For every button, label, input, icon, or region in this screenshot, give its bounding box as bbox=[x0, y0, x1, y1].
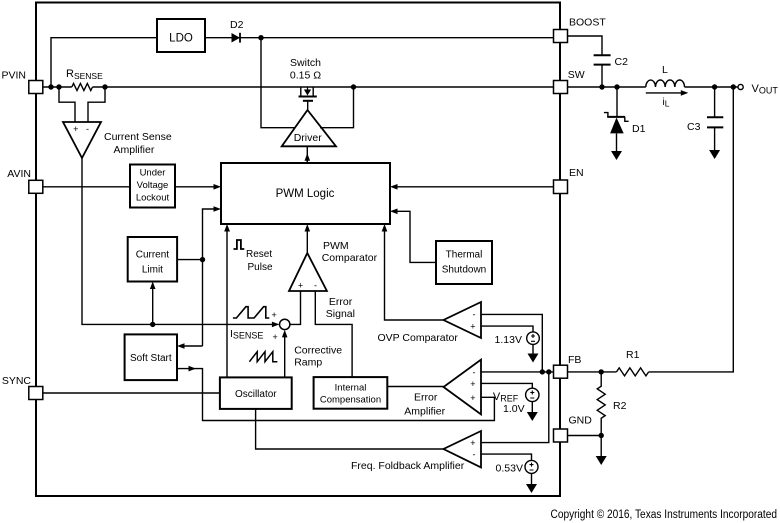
svg-text:C2: C2 bbox=[615, 56, 629, 68]
svg-text:VOUT: VOUT bbox=[752, 83, 779, 96]
svg-text:PWM: PWM bbox=[323, 240, 349, 252]
svg-text:Driver: Driver bbox=[294, 132, 323, 144]
svg-text:Shutdown: Shutdown bbox=[442, 265, 486, 276]
resistor R1 bbox=[617, 349, 649, 376]
node: ISENSE / current limit junction bbox=[150, 322, 155, 327]
node: summing junction circle bbox=[280, 319, 290, 329]
wire: C2 to SW rail bbox=[601, 65, 603, 87]
node: FB net OVP junction bbox=[540, 369, 545, 374]
diode D2 bbox=[230, 19, 244, 43]
wire: summing node to comparator plus input bbox=[290, 291, 301, 324]
svg-text:C3: C3 bbox=[687, 121, 701, 133]
svg-text:1.13V: 1.13V bbox=[495, 334, 522, 346]
svg-text:-: - bbox=[314, 281, 317, 291]
block under voltage lockout bbox=[130, 165, 175, 208]
svg-text:L: L bbox=[662, 64, 668, 76]
wire: R1 to VOUT bbox=[649, 87, 734, 372]
arrowhead into summing node bbox=[272, 322, 280, 328]
wire: foldback minus to 0.53V source bbox=[481, 454, 532, 460]
svg-text:+: + bbox=[470, 438, 475, 448]
capacitor C2 bbox=[594, 55, 628, 68]
pin BOOST bbox=[554, 17, 607, 43]
IC boundary box bbox=[36, 3, 560, 497]
svg-text:Compensation: Compensation bbox=[320, 395, 381, 406]
op-amp current sense amplifier bbox=[63, 122, 172, 158]
svg-text:Switch: Switch bbox=[290, 57, 321, 69]
wire: ISENSE line up into current limit bbox=[152, 289, 154, 324]
svg-text:Reset: Reset bbox=[246, 249, 272, 260]
wire: comparator minus to internal compensation (error signal) bbox=[315, 291, 352, 377]
svg-text:Internal: Internal bbox=[335, 383, 367, 394]
wire: OVP plus input to 1.13V source bbox=[481, 326, 533, 332]
wire: foldback plus to FB net bbox=[481, 372, 549, 443]
svg-text:+: + bbox=[272, 310, 277, 320]
wire: comparator output up into PWM logic bbox=[306, 232, 308, 254]
svg-text:-: - bbox=[473, 367, 476, 377]
svg-text:Copyright © 2016, Texas Instru: Copyright © 2016, Texas Instruments Inco… bbox=[551, 509, 778, 521]
svg-text:Ramp: Ramp bbox=[294, 357, 322, 369]
op-amp error amplifier bbox=[404, 360, 481, 418]
wire: SW rail down to driver right supply bbox=[320, 87, 354, 128]
source 1.13V bbox=[495, 332, 540, 346]
svg-text:Amplifier: Amplifier bbox=[404, 406, 445, 418]
wire: error amp minus to FB pin bbox=[481, 371, 554, 373]
current arrow iL bbox=[646, 92, 681, 94]
wire: SYNC to oscillator bbox=[43, 392, 220, 394]
svg-text:FB: FB bbox=[568, 354, 581, 366]
wire: PVIN rail to LDO (up and across) bbox=[51, 38, 157, 87]
svg-text:-: - bbox=[473, 310, 476, 320]
svg-text:+: + bbox=[73, 124, 78, 134]
wire: bus left into soft start bbox=[184, 345, 202, 347]
svg-text:Pulse: Pulse bbox=[248, 262, 273, 273]
driver amplifier bbox=[282, 110, 336, 146]
svg-text:Amplifier: Amplifier bbox=[114, 144, 155, 156]
wire: BOOST to C2 bbox=[568, 36, 603, 55]
block current limit bbox=[128, 237, 177, 282]
svg-text:BOOST: BOOST bbox=[569, 17, 606, 29]
svg-text:1.0V: 1.0V bbox=[503, 403, 525, 415]
wire: oscillator reset pulse up into PWM logic bbox=[226, 232, 228, 378]
ISENSE waveform glyph bbox=[233, 307, 269, 318]
svg-text:VREF: VREF bbox=[493, 391, 519, 404]
node: C3 junction bbox=[712, 84, 717, 89]
inductor L bbox=[646, 64, 685, 87]
svg-text:Error: Error bbox=[329, 296, 353, 308]
wire: thermal shutdown to PWM logic bbox=[397, 211, 436, 262]
wire: PWM logic to driver bbox=[306, 156, 308, 163]
svg-text:Current Sense: Current Sense bbox=[104, 131, 172, 143]
svg-text:-: - bbox=[86, 124, 89, 134]
pin SW bbox=[554, 69, 585, 94]
wire: sense stub left to amplifier bbox=[59, 87, 75, 122]
svg-text:iL: iL bbox=[663, 97, 670, 109]
block thermal shutdown bbox=[436, 241, 492, 284]
svg-text:+: + bbox=[273, 332, 278, 342]
node: D1 junction on SW rail bbox=[614, 84, 619, 89]
wire: AVIN to under voltage lockout bbox=[43, 186, 130, 188]
svg-text:D1: D1 bbox=[632, 123, 646, 135]
pin SYNC bbox=[2, 375, 43, 400]
svg-text:R2: R2 bbox=[613, 400, 627, 412]
node: rail junction at x51 bbox=[48, 84, 53, 89]
svg-text:PVIN: PVIN bbox=[1, 70, 26, 82]
capacitor C3 bbox=[687, 87, 723, 151]
svg-text:+: + bbox=[298, 281, 303, 291]
block oscillator bbox=[220, 377, 292, 409]
MOSFET switch 0.15 ohm bbox=[290, 57, 321, 110]
svg-text:Thermal: Thermal bbox=[446, 250, 483, 261]
svg-text:-: - bbox=[473, 450, 476, 460]
wire: GND to R2 bottom bbox=[568, 435, 602, 437]
svg-text:LDO: LDO bbox=[169, 33, 193, 45]
svg-text:0.15 Ω: 0.15 Ω bbox=[290, 70, 321, 82]
wire: foldback output to oscillator bbox=[256, 409, 444, 449]
svg-text:GND: GND bbox=[569, 415, 593, 427]
wire: SW to inductor and output bbox=[568, 86, 738, 88]
reset pulse glyph bbox=[234, 240, 245, 249]
svg-text:Soft Start: Soft Start bbox=[130, 353, 172, 364]
op-amp PWM comparator bbox=[289, 240, 378, 291]
svg-text:Voltage: Voltage bbox=[137, 180, 169, 191]
node: feedback tap junction bbox=[731, 84, 736, 89]
source 0.53V bbox=[496, 460, 538, 474]
svg-text:Under: Under bbox=[140, 168, 166, 179]
svg-text:OVP Comparator: OVP Comparator bbox=[378, 332, 459, 344]
svg-text:SW: SW bbox=[568, 69, 585, 81]
ground below 0.53V bbox=[531, 473, 533, 484]
svg-text:Lockout: Lockout bbox=[136, 193, 170, 204]
svg-text:SYNC: SYNC bbox=[2, 375, 32, 387]
svg-text:ISENSE: ISENSE bbox=[230, 328, 263, 341]
diode D1 (schottky) bbox=[604, 87, 646, 152]
pin AVIN bbox=[7, 168, 43, 193]
resistor RSENSE bbox=[66, 68, 103, 91]
svg-text:+: + bbox=[470, 393, 475, 403]
svg-text:PWM Logic: PWM Logic bbox=[276, 188, 335, 200]
pin PVIN bbox=[1, 70, 42, 94]
pin FB bbox=[554, 354, 582, 378]
source VREF 1.0V bbox=[493, 388, 539, 415]
wire: OVP output to PWM logic bbox=[385, 232, 444, 321]
svg-text:Signal: Signal bbox=[326, 308, 355, 320]
block internal compensation bbox=[314, 377, 388, 409]
node: C2 junction on SW rail bbox=[599, 84, 604, 89]
ground below VREF bbox=[531, 402, 533, 413]
corrective ramp waveform glyph bbox=[249, 352, 277, 362]
wire: LDO output to BOOST pin bbox=[205, 37, 553, 39]
wire: junction down to driver left supply bbox=[261, 38, 295, 128]
node: LDO/D2 junction bbox=[258, 35, 263, 40]
resistor R2 bbox=[597, 372, 626, 436]
svg-text:Limit: Limit bbox=[142, 265, 163, 276]
wire: PVIN rail (SW rail) bbox=[43, 86, 553, 88]
svg-text:Error: Error bbox=[414, 391, 438, 403]
node: rail junction at x59 bbox=[56, 84, 61, 89]
wire: soft start output to error amplifier bbox=[177, 369, 494, 421]
LDO U-LDO bbox=[157, 19, 205, 52]
wire: current limit output to vertical bus bbox=[177, 259, 202, 261]
wire: UVLO to PWM logic bbox=[175, 186, 214, 188]
svg-text:Current: Current bbox=[136, 250, 170, 261]
node: FB divider junction bbox=[599, 369, 604, 374]
ground below C3 bbox=[709, 150, 720, 159]
svg-text:D2: D2 bbox=[230, 19, 244, 31]
wire: amplifier output down to ISENSE line bbox=[82, 158, 276, 324]
ground below R2 bbox=[596, 456, 607, 465]
terminal VOUT bbox=[738, 83, 778, 96]
node: FB net foldback junction bbox=[546, 369, 551, 374]
wire: GND junction down bbox=[600, 436, 602, 457]
node: rail junction at x105 bbox=[102, 84, 107, 89]
ground below 1.13V bbox=[532, 345, 534, 355]
wire: OVP minus input to FB net bbox=[481, 314, 542, 372]
node: current limit junction bbox=[200, 257, 205, 262]
pin GND bbox=[554, 415, 593, 443]
wire: sense stub right to amplifier bbox=[88, 87, 105, 122]
block PWM logic bbox=[221, 163, 390, 224]
wire: EN to PWM logic bbox=[397, 186, 553, 188]
wire: FB to divider junction bbox=[568, 371, 617, 373]
svg-text:Comparator: Comparator bbox=[322, 252, 378, 264]
op-amp OVP comparator bbox=[378, 302, 482, 344]
svg-text:+: + bbox=[470, 379, 475, 389]
node: GND junction bbox=[599, 433, 604, 438]
svg-text:0.53V: 0.53V bbox=[496, 463, 523, 475]
svg-text:R1: R1 bbox=[626, 349, 640, 361]
pin EN bbox=[554, 167, 584, 194]
svg-text:Oscillator: Oscillator bbox=[235, 389, 277, 400]
ground below D1 bbox=[611, 151, 622, 160]
block soft start bbox=[125, 334, 177, 380]
svg-text:EN: EN bbox=[569, 167, 584, 179]
svg-text:AVIN: AVIN bbox=[7, 168, 31, 180]
wire: internal compensation to error amp output bbox=[387, 386, 443, 388]
svg-text:+: + bbox=[470, 322, 475, 332]
wire: bus up into PWM logic bbox=[203, 209, 214, 346]
wire: error amp plus to VREF bbox=[481, 383, 532, 388]
op-amp freq foldback amplifier bbox=[351, 431, 481, 472]
wire: oscillator ramp up into summing node bbox=[284, 337, 286, 377]
svg-text:Freq. Foldback Amplifier: Freq. Foldback Amplifier bbox=[351, 460, 465, 472]
svg-text:Corrective: Corrective bbox=[294, 345, 342, 357]
node: SW rail / driver right junction bbox=[351, 84, 356, 89]
